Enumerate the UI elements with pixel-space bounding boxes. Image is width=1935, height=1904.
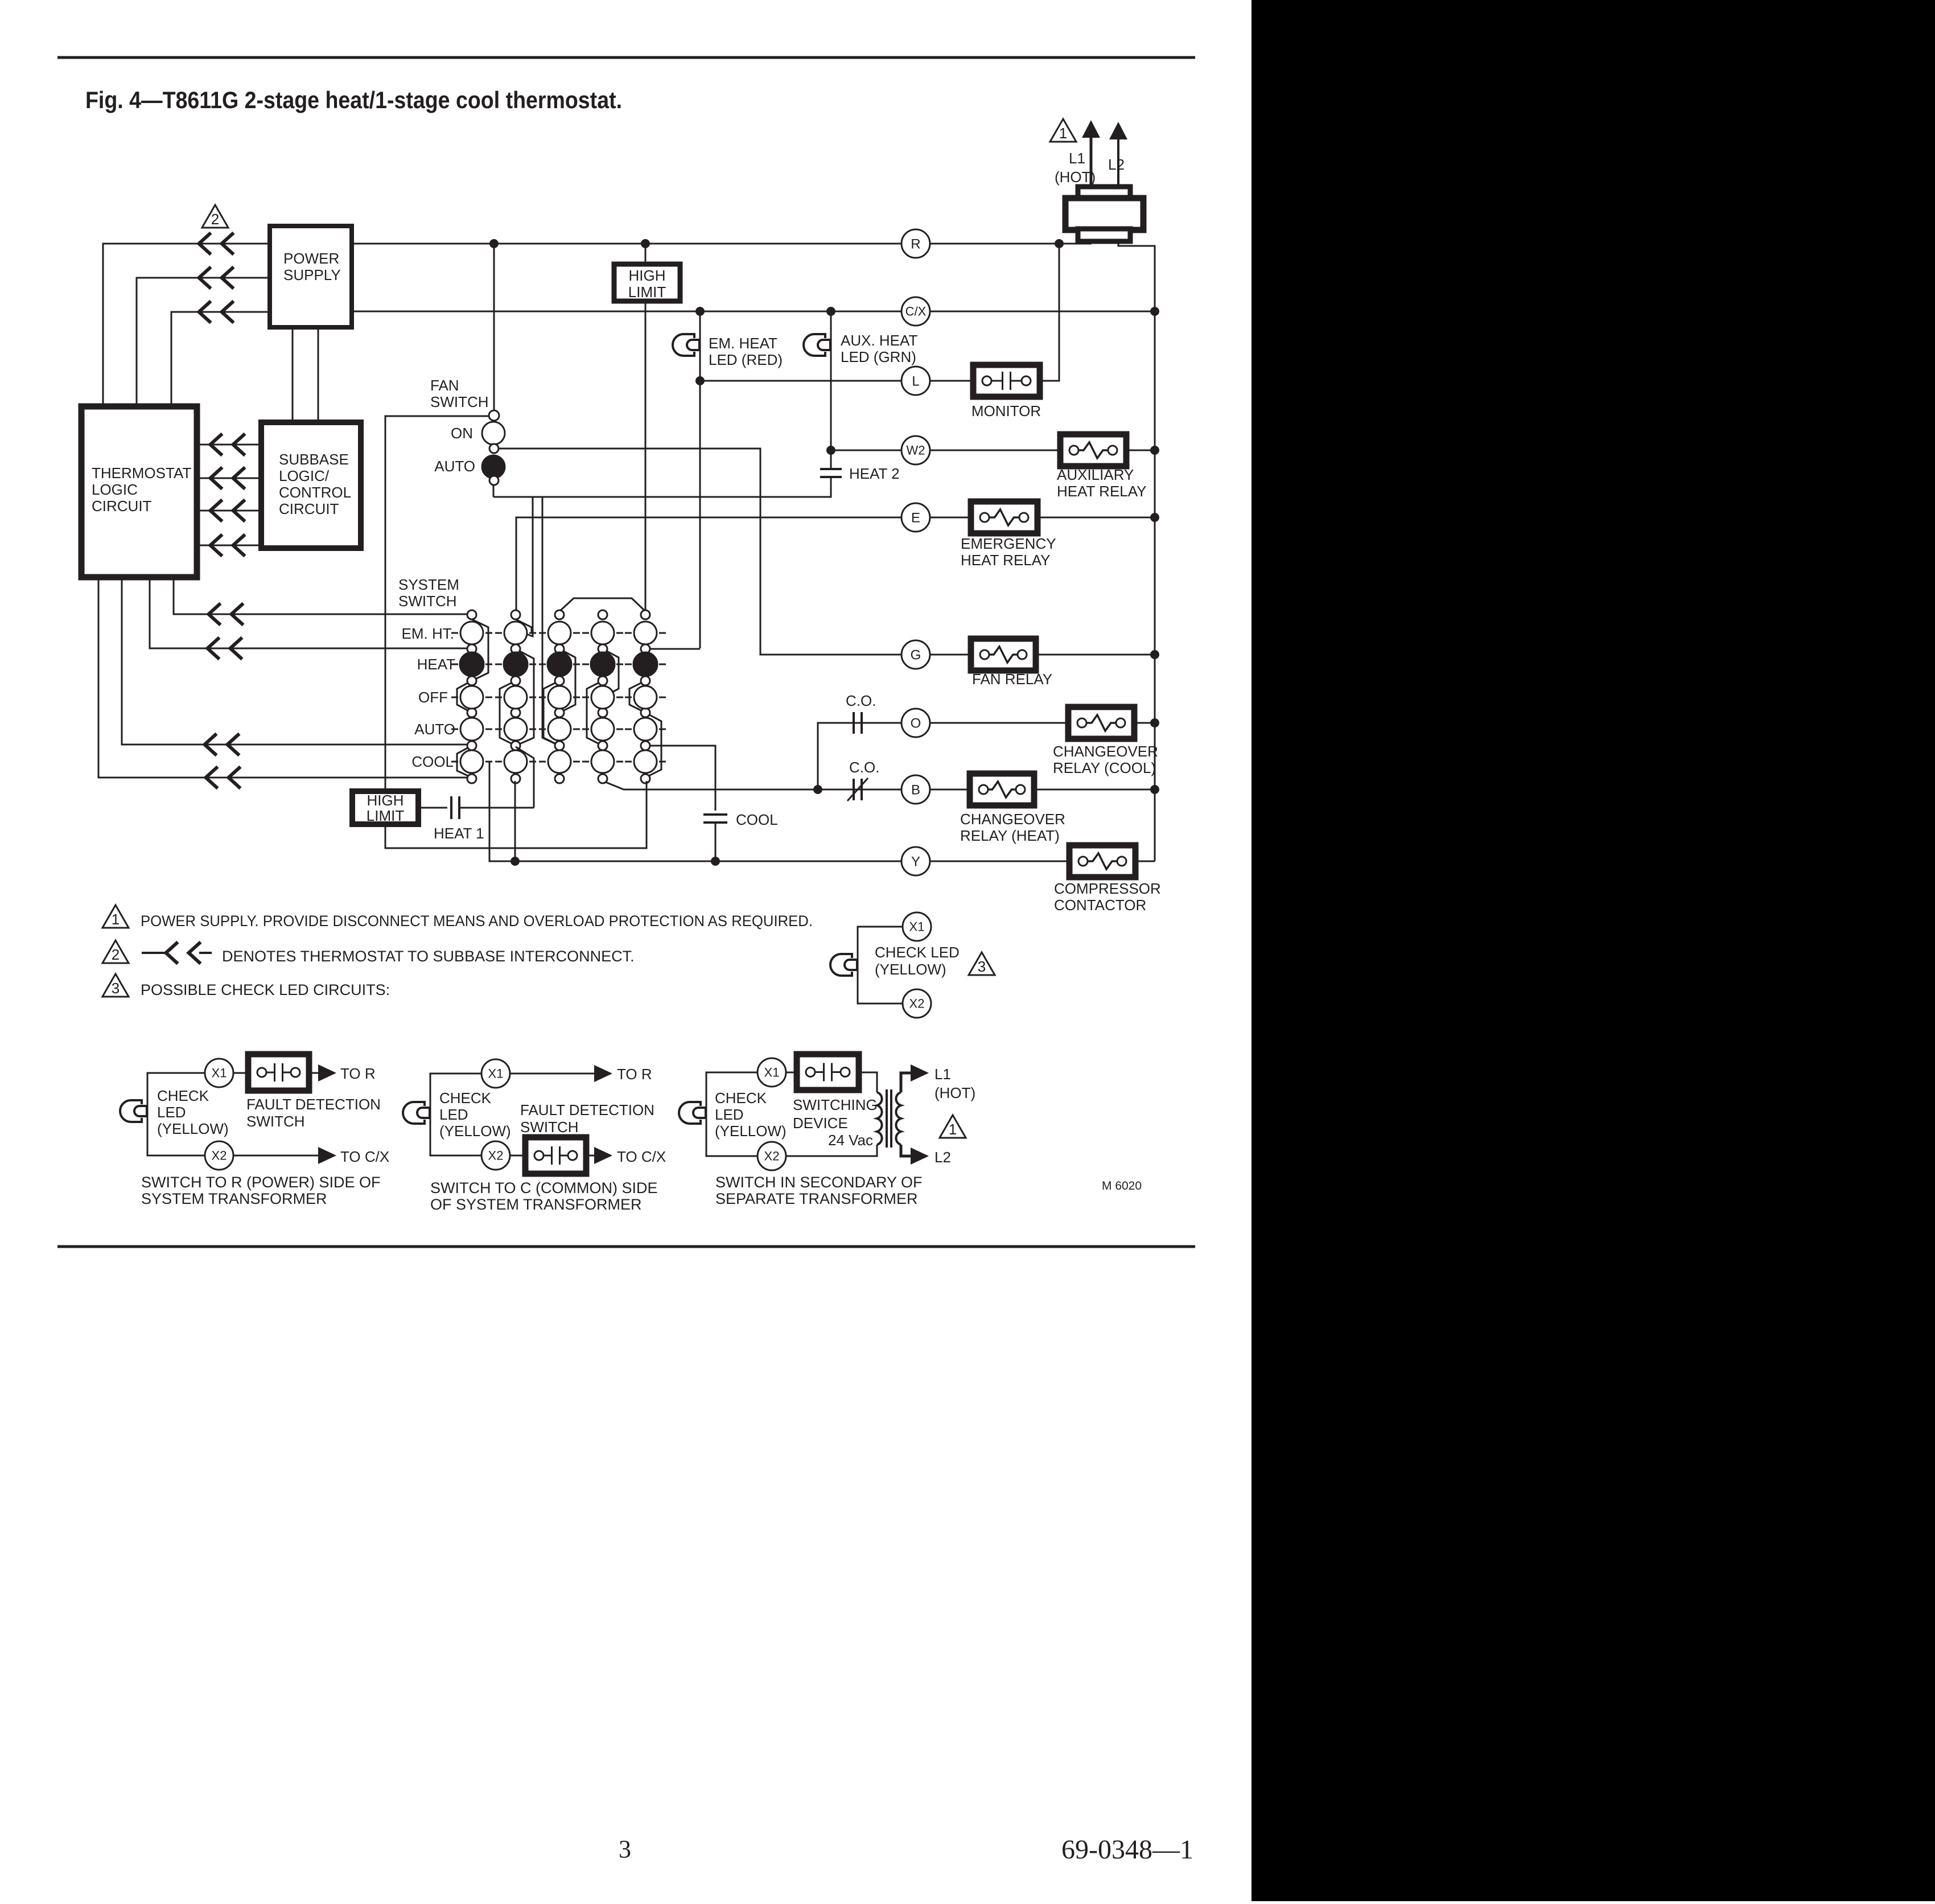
thermostat logic circuit box xyxy=(81,406,197,577)
svg-text:W2: W2 xyxy=(907,443,925,458)
wire em ht to L branch xyxy=(650,648,700,650)
wire aux relay to bus xyxy=(1126,450,1155,451)
svg-text:POWER SUPPLY. PROVIDE DISCONN: POWER SUPPLY. PROVIDE DISCONNECT MEANS A… xyxy=(141,912,813,930)
switch bracket c2 top right xyxy=(516,619,532,633)
node y-col2 xyxy=(510,857,520,866)
node g-bus xyxy=(1150,650,1159,659)
switch bracket c1 right xyxy=(472,619,488,681)
terminal R xyxy=(901,229,930,258)
interconnect arrow ts4 xyxy=(211,534,245,556)
svg-text:CIRCUIT: CIRCUIT xyxy=(92,497,152,515)
svg-text:E: E xyxy=(911,510,920,525)
svg-text:L1: L1 xyxy=(1069,150,1085,167)
wire fan auto drop xyxy=(493,485,495,497)
heat 2 anticipator xyxy=(820,468,842,470)
svg-text:TO R: TO R xyxy=(340,1065,376,1082)
power supply box xyxy=(270,226,352,327)
circuit1 check led xyxy=(120,1100,142,1122)
svg-text:LED: LED xyxy=(715,1106,744,1123)
wire R to high limit xyxy=(645,244,647,264)
wire thermostat out 1 (to system switch top) xyxy=(174,577,467,614)
svg-text:SUPPLY: SUPPLY xyxy=(283,266,341,283)
changeover relay cool xyxy=(1068,707,1134,739)
C/X wire xyxy=(352,311,901,312)
svg-text:LED (GRN): LED (GRN) xyxy=(841,348,916,365)
wire G to fan relay xyxy=(930,654,971,656)
monitor relay xyxy=(973,365,1040,397)
node aux-bus xyxy=(1150,446,1159,455)
wire fan auto feed xyxy=(524,497,533,636)
svg-text:SWITCH TO R (POWER) SIDE OF: SWITCH TO R (POWER) SIDE OF xyxy=(141,1174,381,1191)
svg-text:(HOT): (HOT) xyxy=(934,1084,975,1101)
circuit1 terminal X1 xyxy=(205,1059,233,1087)
thermostat interconnect arrow 3 xyxy=(199,301,234,323)
switch bracket c3 left xyxy=(544,681,559,746)
G wire xyxy=(498,449,901,655)
switch bracket c4 right xyxy=(603,649,619,697)
node CX-led1 xyxy=(695,307,705,316)
svg-text:L: L xyxy=(912,373,919,389)
system switch column 1 xyxy=(467,610,476,619)
switch bridge c3-c5 top xyxy=(559,598,645,611)
transformer primary coil xyxy=(877,1092,882,1145)
switch bracket c3 right xyxy=(559,649,575,713)
wire heat1 to switch xyxy=(459,807,534,809)
svg-text:CONTACTOR: CONTACTOR xyxy=(1054,897,1146,914)
top rule xyxy=(57,56,1195,59)
wire O to changeover cool relay xyxy=(930,722,1068,724)
svg-text:EMERGENCY: EMERGENCY xyxy=(961,535,1056,552)
compressor contactor xyxy=(1069,845,1135,877)
svg-text:DEVICE: DEVICE xyxy=(793,1115,848,1132)
svg-text:SWITCH TO C (COMMON) SIDE: SWITCH TO C (COMMON) SIDE xyxy=(430,1179,658,1196)
thermostat interconnect arrow 2 xyxy=(199,267,234,289)
svg-text:AUXILIARY: AUXILIARY xyxy=(1057,466,1134,483)
svg-text:CONTROL: CONTROL xyxy=(279,484,351,501)
fan switch ON contact xyxy=(482,422,505,445)
svg-text:CHECK: CHECK xyxy=(715,1089,767,1107)
interconnect arrow o2 xyxy=(208,638,242,659)
circuit3 L1 arrow xyxy=(911,1064,929,1081)
wire R to fan switch xyxy=(493,244,495,410)
note 1 triangle xyxy=(102,905,129,928)
svg-text:SWITCH: SWITCH xyxy=(430,393,489,410)
svg-text:COMPRESSOR: COMPRESSOR xyxy=(1054,880,1161,897)
note 2 symbol xyxy=(142,952,168,954)
wire monitor to R xyxy=(1040,244,1059,381)
svg-text:(YELLOW): (YELLOW) xyxy=(715,1122,787,1140)
svg-text:AUTO: AUTO xyxy=(414,721,455,738)
svg-text:3: 3 xyxy=(619,1835,631,1863)
wire L to monitor xyxy=(930,380,973,382)
svg-text:SWITCH: SWITCH xyxy=(520,1118,579,1136)
svg-text:M 6020: M 6020 xyxy=(1102,1179,1142,1192)
fan switch AUTO contact xyxy=(482,455,505,478)
svg-text:3: 3 xyxy=(978,958,986,975)
svg-text:LED: LED xyxy=(439,1106,468,1123)
svg-text:L2: L2 xyxy=(1108,156,1125,173)
circuit3 terminal X2 xyxy=(757,1142,786,1170)
wire 3 from power supply xyxy=(171,312,270,406)
svg-text:(YELLOW): (YELLOW) xyxy=(439,1122,511,1140)
wire thermostat-subbase 1 xyxy=(197,444,261,446)
svg-text:TO R: TO R xyxy=(617,1066,652,1083)
svg-text:(YELLOW): (YELLOW) xyxy=(875,961,946,978)
switch bracket c5 right low xyxy=(645,713,661,778)
svg-text:SWITCH: SWITCH xyxy=(246,1113,305,1130)
circuit2 arrow to C/X xyxy=(594,1147,612,1164)
node o-bus xyxy=(1150,718,1159,727)
svg-text:X1: X1 xyxy=(764,1066,780,1080)
svg-text:HEAT RELAY: HEAT RELAY xyxy=(1057,483,1147,500)
svg-text:HEAT RELAY: HEAT RELAY xyxy=(961,552,1051,569)
svg-text:O: O xyxy=(911,715,921,731)
svg-text:3: 3 xyxy=(112,980,120,997)
aux heat led xyxy=(804,334,825,356)
note triangle 2 xyxy=(202,205,228,228)
interconnect arrow ts1 xyxy=(211,434,245,455)
svg-text:FAULT DETECTION: FAULT DETECTION xyxy=(246,1096,381,1113)
svg-text:1: 1 xyxy=(949,1121,957,1138)
circuit3 wire primary bottom to X2 xyxy=(786,1145,877,1156)
svg-text:CIRCUIT: CIRCUIT xyxy=(279,500,339,517)
svg-text:LED: LED xyxy=(157,1104,186,1121)
note triangle 3b xyxy=(969,952,995,975)
svg-text:C/X: C/X xyxy=(905,305,927,319)
wire R from power supply xyxy=(103,244,270,406)
interconnect arrow o3 xyxy=(205,734,240,755)
high limit box top xyxy=(614,264,680,301)
system switch column 2 xyxy=(511,610,520,619)
wire high limit down to switch xyxy=(645,301,647,611)
circuit3 wire X1 to switching device xyxy=(786,1072,797,1074)
emergency heat relay xyxy=(971,501,1038,533)
W2 wire xyxy=(831,450,901,451)
svg-text:G: G xyxy=(911,647,921,663)
right bus wire xyxy=(1154,311,1156,861)
svg-text:(HOT): (HOT) xyxy=(1055,168,1096,186)
svg-text:B: B xyxy=(911,782,920,797)
circuit1 terminal X2 xyxy=(205,1141,233,1170)
B wire xyxy=(603,781,901,789)
interconnect arrow o4 xyxy=(206,767,241,788)
circuit2 terminal X1 xyxy=(481,1059,510,1088)
wire heat1 riser xyxy=(516,747,534,808)
svg-text:L1: L1 xyxy=(934,1066,951,1083)
svg-text:OFF: OFF xyxy=(418,689,448,706)
wire thermostat out 2 xyxy=(150,577,467,648)
svg-text:L2: L2 xyxy=(934,1149,951,1166)
wire heat2 feed xyxy=(542,497,559,746)
svg-text:LIMIT: LIMIT xyxy=(628,283,666,301)
power transformer xyxy=(1078,187,1130,199)
wire contactor to bus xyxy=(1134,861,1155,862)
svg-text:FAULT DETECTION: FAULT DETECTION xyxy=(520,1101,654,1118)
svg-text:EM. HT.: EM. HT. xyxy=(402,625,454,642)
circuit2 arrow to R xyxy=(594,1065,612,1082)
wire emergency relay to bus xyxy=(1038,517,1155,519)
circuit2 fault detection switch xyxy=(525,1137,586,1174)
svg-text:HIGH: HIGH xyxy=(367,792,404,809)
svg-text:LOGIC: LOGIC xyxy=(92,481,138,498)
fan relay xyxy=(971,639,1036,671)
svg-text:FAN: FAN xyxy=(430,377,459,394)
node W2-heat2 xyxy=(826,446,835,455)
svg-text:TO C/X: TO C/X xyxy=(617,1148,666,1165)
svg-text:LOGIC/: LOGIC/ xyxy=(279,467,330,484)
circuit2 check led xyxy=(403,1102,425,1124)
switch bracket c1 cool left xyxy=(457,746,472,778)
system switch column 3 xyxy=(555,610,564,619)
wire thermostat-subbase 3 xyxy=(197,510,261,512)
changeover contact (cool) xyxy=(853,712,855,734)
circuit1 wire X1 to switch xyxy=(233,1072,248,1074)
node L-led xyxy=(695,376,705,385)
svg-text:AUTO: AUTO xyxy=(434,458,475,475)
svg-text:X1: X1 xyxy=(909,920,925,934)
svg-text:COOL: COOL xyxy=(411,753,454,770)
circuit3 bracket xyxy=(706,1072,757,1156)
node bwire-bus xyxy=(1150,785,1159,794)
wire thermostat-subbase 4 xyxy=(197,545,261,546)
wire power supply to subbase a xyxy=(292,327,294,422)
wire cool cap to Y xyxy=(715,823,717,861)
terminal C/X xyxy=(901,297,930,326)
terminal Y xyxy=(901,847,930,875)
terminal O xyxy=(901,709,930,737)
svg-text:SYSTEM TRANSFORMER: SYSTEM TRANSFORMER xyxy=(141,1190,327,1207)
svg-text:CHANGEOVER: CHANGEOVER xyxy=(1053,743,1158,760)
O wire left leg xyxy=(818,723,901,789)
terminal W2 xyxy=(901,436,930,464)
transformer core xyxy=(886,1089,888,1148)
circuit1 arrow to R xyxy=(318,1064,336,1081)
interconnect arrow ts2 xyxy=(211,467,245,489)
svg-text:SWITCH IN SECONDARY OF: SWITCH IN SECONDARY OF xyxy=(715,1174,923,1191)
svg-text:(YELLOW): (YELLOW) xyxy=(157,1120,229,1137)
svg-text:SWITCHING: SWITCHING xyxy=(793,1096,878,1113)
changeover contact (heat) crossed xyxy=(853,779,855,800)
high limit box 2 xyxy=(352,791,418,824)
wire col2 to Y xyxy=(514,781,516,861)
svg-text:MONITOR: MONITOR xyxy=(971,402,1041,420)
terminal X1 main xyxy=(903,912,931,941)
circuit1 fault detection switch xyxy=(248,1054,309,1091)
check led bracket main xyxy=(858,927,903,1004)
wire cool contact to cap xyxy=(650,746,715,811)
switch bracket c2 mid xyxy=(516,649,534,746)
R wire xyxy=(352,243,1092,245)
svg-text:DENOTES THERMOSTAT TO SUBBASE: DENOTES THERMOSTAT TO SUBBASE INTERCONNE… xyxy=(222,948,635,965)
svg-text:HEAT 1: HEAT 1 xyxy=(434,825,484,842)
svg-text:X2: X2 xyxy=(488,1149,504,1163)
svg-text:2: 2 xyxy=(112,946,120,963)
transformer lead bottom left xyxy=(1091,241,1093,244)
svg-text:TO C/X: TO C/X xyxy=(340,1148,389,1165)
svg-text:OF SYSTEM TRANSFORMER: OF SYSTEM TRANSFORMER xyxy=(430,1196,642,1213)
L2 arrow xyxy=(1109,122,1127,139)
wire fan switch feed left xyxy=(385,416,489,791)
node R-fan xyxy=(489,239,499,248)
check led main xyxy=(830,954,852,976)
fan switch top contact xyxy=(489,410,499,421)
svg-text:X1: X1 xyxy=(488,1067,504,1081)
circuit3 check led xyxy=(679,1102,701,1124)
node b-co xyxy=(813,785,822,794)
node CX-led2 xyxy=(826,307,835,316)
svg-text:AUX. HEAT: AUX. HEAT xyxy=(841,332,917,349)
aux heat led branch wire xyxy=(830,311,832,469)
svg-text:X2: X2 xyxy=(909,997,925,1011)
svg-text:HIGH: HIGH xyxy=(629,267,666,284)
interconnect arrow ts3 xyxy=(211,500,245,521)
note 3 triangle xyxy=(102,974,129,997)
svg-text:SYSTEM: SYSTEM xyxy=(398,576,459,593)
wire high limit 2 bottom xyxy=(385,781,647,848)
svg-text:69-0348—1: 69-0348—1 xyxy=(1061,1835,1193,1865)
svg-text:RELAY (HEAT): RELAY (HEAT) xyxy=(960,827,1060,844)
switch bracket c1 off left xyxy=(457,681,472,713)
wire Y to compressor contactor xyxy=(930,861,1069,862)
circuit3 wire secondary to L1 xyxy=(901,1073,911,1092)
svg-text:R: R xyxy=(911,236,920,252)
wire B to changeover heat relay xyxy=(930,789,970,791)
svg-text:EM. HEAT: EM. HEAT xyxy=(709,335,777,352)
svg-text:C.O.: C.O. xyxy=(846,692,876,709)
circuit2 terminal X2 xyxy=(481,1141,510,1170)
circuit3 note triangle 1 xyxy=(940,1115,966,1138)
node y-coolcap xyxy=(711,857,720,866)
L wire xyxy=(700,380,901,382)
circuit2 bracket xyxy=(430,1074,481,1155)
svg-text:HEAT 2: HEAT 2 xyxy=(849,465,900,482)
svg-text:SEPARATE TRANSFORMER: SEPARATE TRANSFORMER xyxy=(715,1190,918,1207)
svg-text:LED (RED): LED (RED) xyxy=(709,351,783,368)
wire heat2 bottom xyxy=(493,477,831,497)
svg-text:X2: X2 xyxy=(212,1149,227,1163)
system switch column 5 xyxy=(641,610,650,619)
circuit3 wire secondary to L2 xyxy=(901,1145,911,1156)
svg-text:THERMOSTAT: THERMOSTAT xyxy=(92,464,191,482)
wire co-heat to bus xyxy=(1034,789,1155,791)
svg-text:1: 1 xyxy=(1059,125,1067,142)
svg-text:POSSIBLE CHECK LED CIRCUITS:: POSSIBLE CHECK LED CIRCUITS: xyxy=(141,981,390,998)
circuit3 L2 arrow xyxy=(911,1148,929,1165)
svg-text:24 Vac: 24 Vac xyxy=(828,1132,873,1149)
wire 2 from power supply xyxy=(137,278,270,406)
auxiliary heat relay xyxy=(1060,434,1126,466)
black scan band right xyxy=(1251,0,1935,1901)
interconnect arrow o1 xyxy=(209,603,244,625)
E wire xyxy=(516,517,901,618)
switch bracket c2 left xyxy=(500,681,516,746)
circuit1 arrow to C/X xyxy=(318,1147,336,1164)
transformer lead bottom right xyxy=(1118,241,1155,311)
svg-text:Y: Y xyxy=(911,854,920,869)
Y wire xyxy=(489,762,901,861)
terminal G xyxy=(901,640,930,669)
cool anticipator xyxy=(703,813,727,816)
transformer secondary coil xyxy=(896,1092,901,1145)
svg-text:SUBBASE: SUBBASE xyxy=(279,451,349,468)
svg-text:X1: X1 xyxy=(212,1066,227,1080)
bottom rule xyxy=(57,1245,1195,1248)
note 2 triangle xyxy=(102,940,129,963)
circuit2 wire X1 to arrow xyxy=(510,1073,594,1075)
thermostat interconnect arrow 1 xyxy=(199,233,234,254)
subbase logic/control circuit box xyxy=(261,422,361,548)
wire power supply to subbase b xyxy=(318,327,319,422)
svg-text:1: 1 xyxy=(112,911,120,928)
svg-text:C.O.: C.O. xyxy=(849,759,879,776)
circuit1 wire X2 to arrow xyxy=(233,1155,318,1157)
circuit3 switching device xyxy=(797,1054,859,1090)
circuit3 wire device to primary xyxy=(859,1072,877,1092)
svg-text:POWER: POWER xyxy=(283,250,339,267)
circuit1 bracket xyxy=(147,1073,205,1155)
wire fan relay to bus xyxy=(1036,654,1155,656)
svg-text:SWITCH: SWITCH xyxy=(398,593,457,610)
circuit1 wire switch to arrow xyxy=(309,1072,318,1074)
wire thermostat out 4 xyxy=(98,577,467,778)
wire co-cool to bus xyxy=(1133,722,1155,724)
svg-text:FAN RELAY: FAN RELAY xyxy=(972,671,1052,688)
svg-text:ON: ON xyxy=(451,425,473,442)
changeover relay heat xyxy=(970,774,1034,805)
svg-text:CHANGEOVER: CHANGEOVER xyxy=(960,811,1065,828)
circuit3 terminal X1 xyxy=(757,1058,786,1087)
terminal E xyxy=(901,503,930,532)
node R-monitor xyxy=(1055,239,1064,248)
fan switch contact small auto xyxy=(489,476,499,485)
node CX-bus xyxy=(1150,307,1159,316)
note triangle 1 xyxy=(1050,119,1076,142)
svg-text:CHECK LED: CHECK LED xyxy=(875,944,960,961)
wire C/X to bus xyxy=(930,311,1155,312)
wire thermostat-subbase 2 xyxy=(197,478,261,479)
em heat led xyxy=(673,334,694,356)
em heat led branch wire xyxy=(699,311,701,648)
terminal X2 main xyxy=(903,989,931,1018)
node e-bus xyxy=(1150,513,1159,522)
wire high limit 2 right xyxy=(418,807,447,809)
circuit2 wire X2 to switch xyxy=(510,1155,525,1157)
wire W2 to aux relay xyxy=(930,450,1060,451)
switch bracket c4 left xyxy=(587,681,603,746)
wire E to emergency relay xyxy=(930,517,971,519)
svg-text:COOL: COOL xyxy=(736,811,778,828)
svg-text:RELAY (COOL): RELAY (COOL) xyxy=(1053,759,1156,776)
switch bracket c5 left xyxy=(629,681,645,713)
fan switch contact small on xyxy=(489,444,499,453)
svg-text:LIMIT: LIMIT xyxy=(367,807,405,824)
terminal L xyxy=(901,367,930,395)
L1 arrow xyxy=(1082,120,1100,138)
svg-text:HEAT: HEAT xyxy=(417,656,456,673)
heat 1 anticipator xyxy=(450,796,452,819)
terminal B xyxy=(901,775,930,804)
circuit2 wire switch to arrow xyxy=(586,1155,594,1157)
wire thermostat out 3 xyxy=(122,577,467,745)
svg-text:CHECK: CHECK xyxy=(157,1087,209,1104)
svg-text:X2: X2 xyxy=(764,1149,780,1163)
svg-text:Fig. 4—T8611G 2-stage heat/1-s: Fig. 4—T8611G 2-stage heat/1-stage cool … xyxy=(85,87,622,113)
svg-text:CHECK: CHECK xyxy=(439,1089,492,1107)
svg-text:2: 2 xyxy=(211,211,219,228)
system switch column 4 xyxy=(598,610,607,619)
node R-highlimit xyxy=(641,239,650,248)
